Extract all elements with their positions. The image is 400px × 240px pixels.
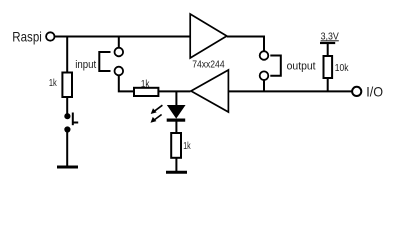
wire left branch down	[66, 37, 68, 74]
svg-text:10k: 10k	[335, 63, 350, 74]
wire R4 to I/O line	[327, 78, 329, 91]
supply 3.3V	[320, 31, 339, 43]
ground left	[57, 166, 78, 169]
wire U1a output to output pin	[227, 37, 264, 52]
input pin top	[115, 48, 124, 57]
input pin bottom	[115, 67, 124, 76]
buffer U1b (74xx244 receiver)	[191, 70, 228, 112]
resistor R1 1k	[49, 73, 72, 98]
wire R3 to ground	[175, 158, 177, 171]
output pin bottom	[260, 71, 269, 80]
wire 3.3V to R4	[327, 43, 329, 57]
ground middle	[166, 171, 187, 174]
svg-text:1k: 1k	[183, 141, 191, 152]
svg-text:74xx244: 74xx244	[192, 60, 225, 71]
wire input branch down	[118, 37, 120, 49]
input brace	[99, 52, 110, 71]
wire I/O line	[228, 90, 352, 92]
svg-text:3,3V: 3,3V	[321, 31, 339, 42]
resistor R4 10k	[324, 56, 350, 78]
pushbutton S1	[64, 113, 78, 133]
LED arrows	[151, 105, 163, 123]
svg-text:1k: 1k	[141, 79, 150, 90]
resistor R3 1k	[171, 133, 191, 158]
wire R2 to U1b output	[158, 90, 190, 92]
resistor R2 1k	[134, 79, 158, 96]
wire main Raspi to U1a input	[55, 36, 191, 38]
output pin top	[260, 51, 269, 60]
svg-text:Raspi: Raspi	[12, 28, 42, 44]
svg-text:input: input	[75, 59, 96, 71]
svg-text:output: output	[287, 61, 316, 73]
node I/O terminal	[352, 87, 361, 96]
output brace	[270, 56, 281, 76]
wire LED branch	[175, 91, 177, 106]
svg-text:1k: 1k	[49, 78, 58, 89]
node Raspi terminal	[46, 32, 54, 40]
wire input pin to R2	[119, 75, 135, 91]
wire R1 to button	[66, 97, 68, 114]
svg-text:I/O: I/O	[366, 84, 383, 100]
wire LED to R3	[175, 122, 177, 134]
wire button to ground	[66, 131, 68, 166]
LED D1	[167, 106, 186, 122]
buffer U1a (74xx244 driver)	[190, 14, 227, 58]
wire output pin to I/O line	[263, 80, 265, 91]
